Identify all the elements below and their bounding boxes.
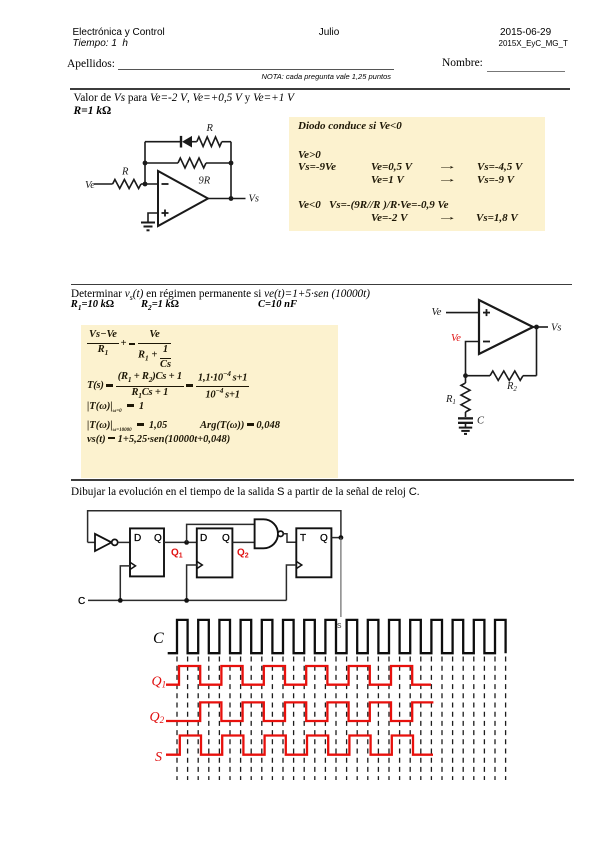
- wire Q1: [164, 541, 197, 543]
- wire C clock line: [88, 599, 286, 601]
- box1 line: Ve<0 formula: [298, 200, 449, 211]
- eq line 1 plus sign: [121, 339, 127, 350]
- box1 row3: Vs=1,8 V: [476, 213, 518, 224]
- wire Ve to plus input: [446, 312, 479, 314]
- box1 row2: Ve=1 V: [371, 175, 404, 186]
- Q2 solution yellow box: [81, 325, 338, 478]
- fraction transfer: [116, 371, 184, 401]
- inverter NOT gate: [95, 534, 112, 551]
- svg-text:R: R: [206, 123, 214, 134]
- wire FF3 Q output: [331, 537, 341, 539]
- svg-text:Ve: Ve: [85, 180, 95, 191]
- svg-text:T: T: [300, 533, 306, 544]
- nota text: [200, 73, 391, 81]
- wire R to inverting input: [141, 183, 158, 185]
- svg-text:Ve: Ve: [451, 333, 461, 344]
- header course title: [73, 28, 165, 38]
- op-amp plus sign: [162, 212, 169, 214]
- node C-FF2: [184, 598, 189, 603]
- svg-text:D: D: [200, 533, 207, 544]
- node middle-left: [143, 161, 148, 166]
- wire R2 to node: [466, 375, 491, 377]
- FF2 clock wire: [187, 565, 197, 600]
- wire right vertical: [230, 142, 232, 199]
- svg-text:C: C: [153, 630, 164, 647]
- capacitor C plate 2: [458, 422, 473, 424]
- svg-text:S: S: [155, 750, 162, 765]
- wire Q1 to NAND top input: [187, 524, 255, 542]
- svg-text:Q1: Q1: [152, 675, 167, 690]
- rule 2: [71, 284, 572, 286]
- eq line 1 equals dash: [129, 343, 136, 346]
- svg-text:D: D: [134, 533, 141, 544]
- fraction numeric: [196, 370, 249, 403]
- Q2 value R2: [141, 300, 179, 311]
- resistor 9R (middle feedback): [178, 158, 206, 168]
- resistor R (input): [113, 180, 141, 189]
- resistor R2: [490, 371, 523, 380]
- inverter bubble: [112, 539, 118, 545]
- wire middle branch right: [206, 162, 231, 164]
- eq line 1: node equation: [87, 329, 119, 358]
- flip-flop FF2 box: [197, 528, 233, 577]
- apellidos underline: [118, 69, 394, 70]
- Q2 value R1: [71, 300, 114, 311]
- box1 line: Ve>0: [298, 150, 321, 161]
- wire plus input to ground: [148, 213, 158, 222]
- wire feedback vertical: [536, 327, 538, 376]
- wire inverter to FF1: [118, 541, 130, 543]
- node output: [534, 325, 539, 330]
- wire top branch left: [145, 141, 180, 143]
- op-amp plus sign: [483, 312, 490, 314]
- eq line 3: gain at dc: [87, 402, 144, 414]
- wire output: [533, 326, 548, 328]
- wire Q2: [232, 541, 254, 543]
- FF3 clock chevron: [296, 561, 302, 568]
- box1 line: diodo conduce: [298, 121, 402, 132]
- dashed grid lines: [177, 657, 506, 781]
- svg-text:Vs: Vs: [551, 323, 562, 334]
- clock waveform C: [168, 620, 506, 653]
- wire feedback to R2: [523, 375, 537, 377]
- NAND bubble: [278, 531, 283, 536]
- Q2 value C: [258, 300, 297, 311]
- svg-text:Q: Q: [222, 533, 230, 544]
- svg-text:Vs: Vs: [249, 194, 260, 205]
- box1 row2 arrow: [437, 174, 448, 185]
- box1 row3 arrow: [437, 212, 448, 223]
- wire middle branch left: [145, 162, 178, 164]
- wire NAND output to T input: [283, 534, 296, 543]
- rule 1: [70, 88, 570, 90]
- eq line 2: T(s): [87, 370, 249, 403]
- box1 row1 arrow: [437, 161, 448, 172]
- FF1 clock wire: [120, 566, 130, 601]
- waveform Q1: [166, 666, 431, 685]
- header exam code: [499, 40, 568, 48]
- nombre label: [442, 58, 483, 70]
- FF1 clock chevron: [130, 562, 136, 569]
- rule 3: [71, 479, 574, 481]
- resistor R1 (vertical): [461, 383, 470, 412]
- wire S down to timing diagram: [340, 538, 342, 617]
- diode D1 cathode bar: [180, 136, 182, 148]
- header month: [319, 28, 340, 38]
- FF3 clock wire: [286, 565, 296, 600]
- node middle-right: [229, 161, 234, 166]
- Q3 statement: [71, 487, 420, 498]
- capacitor C plate 1: [458, 417, 473, 419]
- eq line 4b: Arg: [200, 421, 280, 432]
- waveform Q2: [166, 702, 433, 721]
- svg-text:Q1: Q1: [171, 548, 183, 560]
- box1 row3: Ve=-2 V: [371, 213, 408, 224]
- op-amp U1 triangle: [158, 171, 208, 226]
- Q1 R value: [74, 106, 111, 118]
- header date: [500, 28, 551, 38]
- apellidos label: [67, 59, 115, 71]
- node at inverting input: [143, 182, 148, 187]
- svg-text:Ve: Ve: [432, 307, 442, 318]
- node feedback junction: [463, 373, 468, 378]
- header time: [73, 39, 129, 49]
- svg-text:C: C: [477, 416, 485, 427]
- wire output: [208, 198, 246, 200]
- node C-FF1: [118, 598, 123, 603]
- ground symbol: [459, 427, 472, 429]
- Q1 solution yellow box: [289, 117, 545, 231]
- wire top branch right: [222, 141, 231, 143]
- FF2 clock chevron: [197, 561, 203, 568]
- eq line 1 right fraction: [138, 329, 171, 371]
- svg-text:R: R: [121, 167, 129, 178]
- eq line 5: vs(t): [87, 435, 230, 446]
- ground symbol: [141, 222, 155, 224]
- svg-text:R2: R2: [506, 381, 517, 393]
- wire diode to R top: [192, 141, 197, 143]
- box1 row1: Vs=-9Ve: [298, 162, 336, 173]
- op-amp minus sign: [162, 183, 169, 185]
- svg-text:Q: Q: [320, 533, 328, 544]
- wire R1 to capacitor: [465, 412, 467, 417]
- op-amp minus sign: [483, 341, 490, 343]
- op-amp U2 triangle: [479, 300, 533, 354]
- node S output: [339, 535, 344, 540]
- node output: [229, 196, 234, 201]
- NAND gate U3: [255, 519, 278, 548]
- svg-text:C: C: [78, 596, 85, 607]
- flip-flop FF3 (T) box: [296, 528, 331, 577]
- svg-text:R1: R1: [445, 394, 456, 406]
- wire minus input left and down: [466, 342, 480, 376]
- svg-text:9R: 9R: [199, 176, 211, 187]
- wire top feedback: [88, 511, 341, 543]
- nombre underline: [487, 71, 565, 72]
- Q1 statement: [74, 93, 294, 104]
- wire to inverter: [88, 541, 95, 543]
- eq line 4: gain at 10000: [87, 421, 167, 433]
- svg-text:Q2: Q2: [237, 548, 249, 560]
- box1 row1: Ve=0,5 V: [371, 162, 412, 173]
- box1 row1: Vs=-4,5 V: [477, 162, 522, 173]
- waveform S: [166, 736, 433, 755]
- node Q1: [184, 540, 189, 545]
- flip-flop FF1 box: [130, 528, 164, 576]
- svg-text:Q: Q: [154, 533, 162, 544]
- wire capacitor to ground: [465, 424, 467, 427]
- wire node to R1: [465, 376, 467, 383]
- box1 row2: Vs=-9 V: [477, 175, 514, 186]
- svg-text:Q2: Q2: [150, 710, 165, 725]
- diode D1 triangle: [182, 136, 192, 148]
- resistor R (top feedback): [197, 137, 222, 147]
- wire Ve to R: [95, 183, 113, 185]
- wire left vertical up: [144, 142, 146, 184]
- Q2 statement: [71, 289, 370, 302]
